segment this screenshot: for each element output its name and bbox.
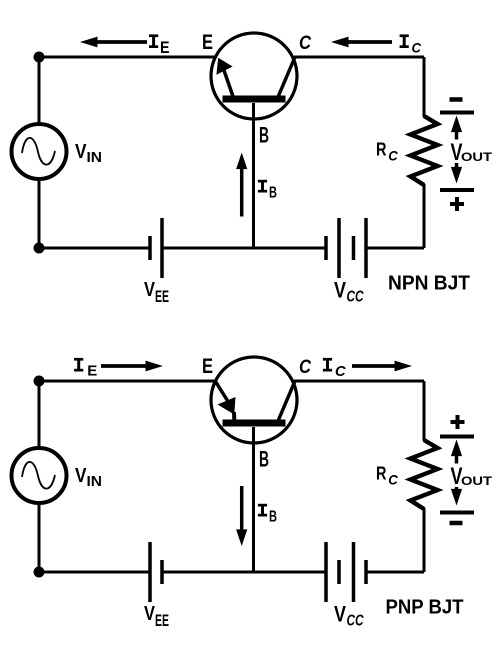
svg-text:CC: CC xyxy=(347,289,365,306)
VOUT top bar PNP xyxy=(440,435,474,439)
svg-text:R: R xyxy=(376,464,387,484)
svg-text:V: V xyxy=(334,602,346,627)
svg-text:E: E xyxy=(87,364,97,380)
VOUT polarity bottom NPN xyxy=(450,202,464,206)
svg-text:B: B xyxy=(269,185,277,202)
svg-text:V: V xyxy=(75,141,87,163)
label IE PNP xyxy=(74,358,83,361)
svg-text:R: R xyxy=(376,140,387,160)
svg-text:CC: CC xyxy=(347,613,365,630)
current IB arrow NPN xyxy=(240,167,244,216)
current IB arrow PNP xyxy=(240,486,244,531)
VOUT bottom bar NPN xyxy=(440,188,474,192)
VOUT up arrow NPN xyxy=(455,130,459,139)
resistor RC zigzag NPN xyxy=(411,116,438,185)
svg-text:EE: EE xyxy=(155,288,169,306)
svg-text:OUT: OUT xyxy=(461,151,493,164)
svg-text:V: V xyxy=(334,278,346,303)
svg-text:V: V xyxy=(75,465,87,487)
wire bottom-middle segment PNP xyxy=(164,571,325,574)
svg-text:E: E xyxy=(160,38,170,57)
svg-text:C: C xyxy=(299,33,311,54)
svg-text:PNP BJT: PNP BJT xyxy=(386,597,465,619)
wire left lower PNP xyxy=(38,502,41,572)
svg-text:C: C xyxy=(388,148,398,164)
battery VEE PNP xyxy=(148,542,152,602)
transistor base bar PNP xyxy=(223,420,286,427)
battery VEE NPN xyxy=(148,236,152,260)
svg-text:C: C xyxy=(335,364,346,380)
svg-text:IN: IN xyxy=(87,474,103,490)
VOUT down arrow NPN xyxy=(455,163,459,169)
sine wave NPN xyxy=(22,138,55,165)
svg-text:NPN BJT: NPN BJT xyxy=(388,273,471,295)
VOUT polarity top NPN xyxy=(450,97,463,102)
VOUT bottom bar PNP xyxy=(440,511,474,515)
svg-text:C: C xyxy=(412,40,422,56)
svg-text:B: B xyxy=(259,123,269,148)
node junction top-left NPN xyxy=(34,52,45,63)
VOUT polarity bottom PNP xyxy=(450,521,463,526)
label IE NPN xyxy=(149,34,158,37)
wire left lower NPN xyxy=(38,178,41,248)
svg-text:E: E xyxy=(202,30,213,54)
wire right upper NPN xyxy=(423,57,426,117)
wire base lead PNP xyxy=(252,427,255,572)
label IC PNP xyxy=(323,358,332,361)
wire right upper PNP xyxy=(423,381,426,441)
label IB PNP xyxy=(258,504,267,507)
wire base lead NPN xyxy=(252,103,255,248)
node junction bottom-left PNP xyxy=(34,567,45,578)
node junction top-left PNP xyxy=(34,376,45,387)
battery VCC PNP xyxy=(324,542,328,602)
current IE arrow NPN xyxy=(96,40,148,44)
VOUT up arrow PNP xyxy=(455,454,459,463)
svg-text:OUT: OUT xyxy=(461,475,493,488)
source VIN circle PNP xyxy=(12,448,67,503)
wire top-left segment PNP xyxy=(39,380,215,383)
svg-text:EE: EE xyxy=(155,612,169,630)
label IB NPN xyxy=(258,180,267,183)
label IC NPN xyxy=(400,34,409,37)
transistor circle NPN xyxy=(211,33,297,119)
wire bottom-left segment NPN xyxy=(39,247,149,250)
wire top-right segment NPN xyxy=(294,56,424,59)
svg-text:V: V xyxy=(144,603,156,625)
wire bottom-right segment NPN xyxy=(368,247,425,250)
wire top-right segment PNP xyxy=(294,380,424,383)
collector line NPN xyxy=(278,57,295,97)
VOUT down arrow PNP xyxy=(455,487,459,491)
wire bottom-middle segment NPN xyxy=(164,247,325,250)
current IE arrow PNP xyxy=(101,364,148,368)
VOUT polarity top PNP xyxy=(451,420,465,424)
wire bottom-right segment PNP xyxy=(368,571,425,574)
svg-text:E: E xyxy=(202,354,213,378)
battery VCC NPN xyxy=(324,236,328,260)
wire bottom-left segment PNP xyxy=(39,571,149,574)
svg-text:B: B xyxy=(269,509,277,526)
wire top-left segment NPN xyxy=(39,56,215,59)
svg-text:B: B xyxy=(259,447,269,472)
resistor RC zigzag PNP xyxy=(411,440,438,509)
wire left upper PNP xyxy=(38,381,41,449)
svg-text:IN: IN xyxy=(87,150,103,166)
wire left upper NPN xyxy=(38,57,41,125)
svg-text:V: V xyxy=(144,279,156,301)
wire right lower PNP xyxy=(423,508,426,572)
current IC arrow NPN xyxy=(347,40,393,44)
wire right lower NPN xyxy=(423,184,426,248)
VOUT top bar NPN xyxy=(440,111,474,115)
svg-text:C: C xyxy=(299,357,311,378)
sine wave PNP xyxy=(22,462,55,489)
emitter line with PNP arrow xyxy=(216,382,229,402)
node junction bottom-left NPN xyxy=(34,243,45,254)
svg-text:C: C xyxy=(388,472,398,488)
current IC arrow PNP xyxy=(352,364,397,368)
transistor base bar NPN xyxy=(223,96,286,103)
collector line PNP xyxy=(278,381,295,421)
emitter line with NPN arrow xyxy=(223,66,234,97)
source VIN circle NPN xyxy=(12,124,67,179)
transistor circle PNP xyxy=(211,357,297,443)
